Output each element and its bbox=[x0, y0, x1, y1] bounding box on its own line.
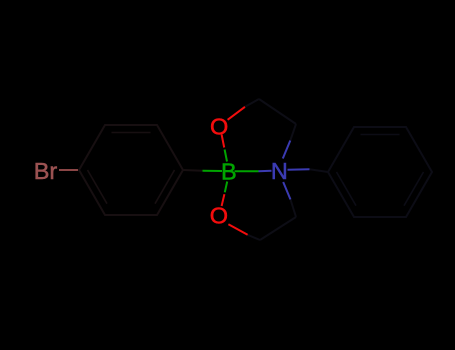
wire C4-B bond green half bbox=[203, 170, 223, 172]
wire B-O lower bond red half bbox=[222, 194, 225, 206]
wire N-phenyl bond dark half bbox=[310, 169, 329, 172]
wire B-O upper bond green half bbox=[225, 150, 227, 162]
wire N-CH2 lower bond dark half bbox=[291, 200, 297, 218]
wire CH2-O lower bond dark half bbox=[248, 235, 260, 240]
wire CH2-CH2 lower bond bbox=[260, 217, 296, 240]
wire CH2-N upper bond blue half bbox=[283, 141, 291, 159]
wire Br-C1 bond bbox=[59, 169, 78, 171]
phenyl ring right (N-substituent) bbox=[328, 127, 432, 217]
wire CH2-N upper bond dark half bbox=[290, 124, 296, 141]
wire O upper - CH2 bond dark half bbox=[245, 99, 259, 107]
svg-text:O: O bbox=[210, 203, 228, 229]
svg-text:Br: Br bbox=[34, 158, 58, 184]
wire C4-B bond dark half bbox=[183, 169, 203, 172]
wire N-CH2 lower bond blue half bbox=[283, 182, 290, 200]
wire O upper - CH2 bond red half bbox=[228, 107, 245, 120]
svg-text:O: O bbox=[210, 113, 228, 139]
wire B-O lower bond green half bbox=[225, 182, 227, 193]
wire N-phenyl bond blue half bbox=[288, 168, 310, 171]
svg-text:B: B bbox=[221, 159, 237, 185]
wire CH2-CH2 upper bond bbox=[259, 99, 296, 124]
wire B-N bond blue half bbox=[259, 170, 272, 172]
svg-text:N: N bbox=[271, 158, 288, 184]
wire B-O upper bond red half bbox=[222, 135, 225, 148]
wire B-N bond green half bbox=[235, 170, 259, 172]
benzene ring left (4-bromophenyl) bbox=[79, 125, 183, 215]
wire CH2-O lower bond red half bbox=[228, 224, 247, 235]
